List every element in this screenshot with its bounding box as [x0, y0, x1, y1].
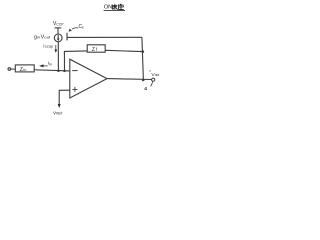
title ON状態	[104, 4, 125, 11]
pin number 4	[144, 86, 147, 92]
svg-text:in: in	[23, 67, 26, 72]
svg-text:ccap: ccap	[45, 44, 53, 48]
output terminal circle Vout	[152, 78, 155, 81]
label Vref	[53, 110, 63, 115]
power rail Vccp T-bar	[55, 28, 62, 34]
node junction at feedback branch	[63, 70, 66, 73]
label Cs	[79, 24, 85, 30]
svg-text:out: out	[44, 36, 51, 40]
svg-text:4: 4	[144, 86, 147, 92]
op-amp U1	[70, 59, 107, 98]
wire current source down to summing node	[57, 42, 59, 71]
impedance Zin box	[15, 65, 34, 73]
svg-text:REF: REF	[56, 111, 62, 115]
wire input to op-amp inverting input (summing wire)	[11, 69, 70, 71]
input terminal circle	[8, 68, 11, 71]
wire op-amp noninverting input to Vref	[58, 90, 70, 108]
current source gVout (circle with down arrow)	[54, 34, 62, 42]
node junction Zf at right rail	[142, 50, 145, 53]
pin 4 leader line	[151, 81, 153, 86]
svg-text:ON: ON	[104, 4, 112, 10]
svg-text:out: out	[155, 73, 160, 77]
label Vccp	[53, 21, 64, 27]
wire op-amp output to Vout terminal	[107, 78, 152, 81]
right rail vertical wire	[142, 37, 144, 80]
label Vout	[151, 72, 159, 78]
leader arrow from Cs to capacitor gap	[69, 28, 79, 32]
node junction at current source branch	[57, 70, 60, 73]
current annotation arrow Iccap	[54, 45, 57, 53]
tick mark above Vout terminal	[149, 70, 151, 71]
svg-text:CCP: CCP	[56, 22, 64, 26]
node junction output at right rail	[142, 79, 145, 82]
svg-text:in: in	[49, 62, 52, 66]
wire capacitor bar to right rail (top wire)	[67, 36, 142, 38]
wire Zf to right rail	[105, 50, 142, 51]
capacitor plate (bar)	[66, 33, 68, 41]
impedance Zf box	[87, 45, 105, 53]
wire feedback branch up and right to Zf	[64, 51, 87, 71]
label g·Vout	[34, 34, 51, 40]
label Iccap	[43, 43, 53, 48]
current arrow Iin	[39, 61, 52, 68]
